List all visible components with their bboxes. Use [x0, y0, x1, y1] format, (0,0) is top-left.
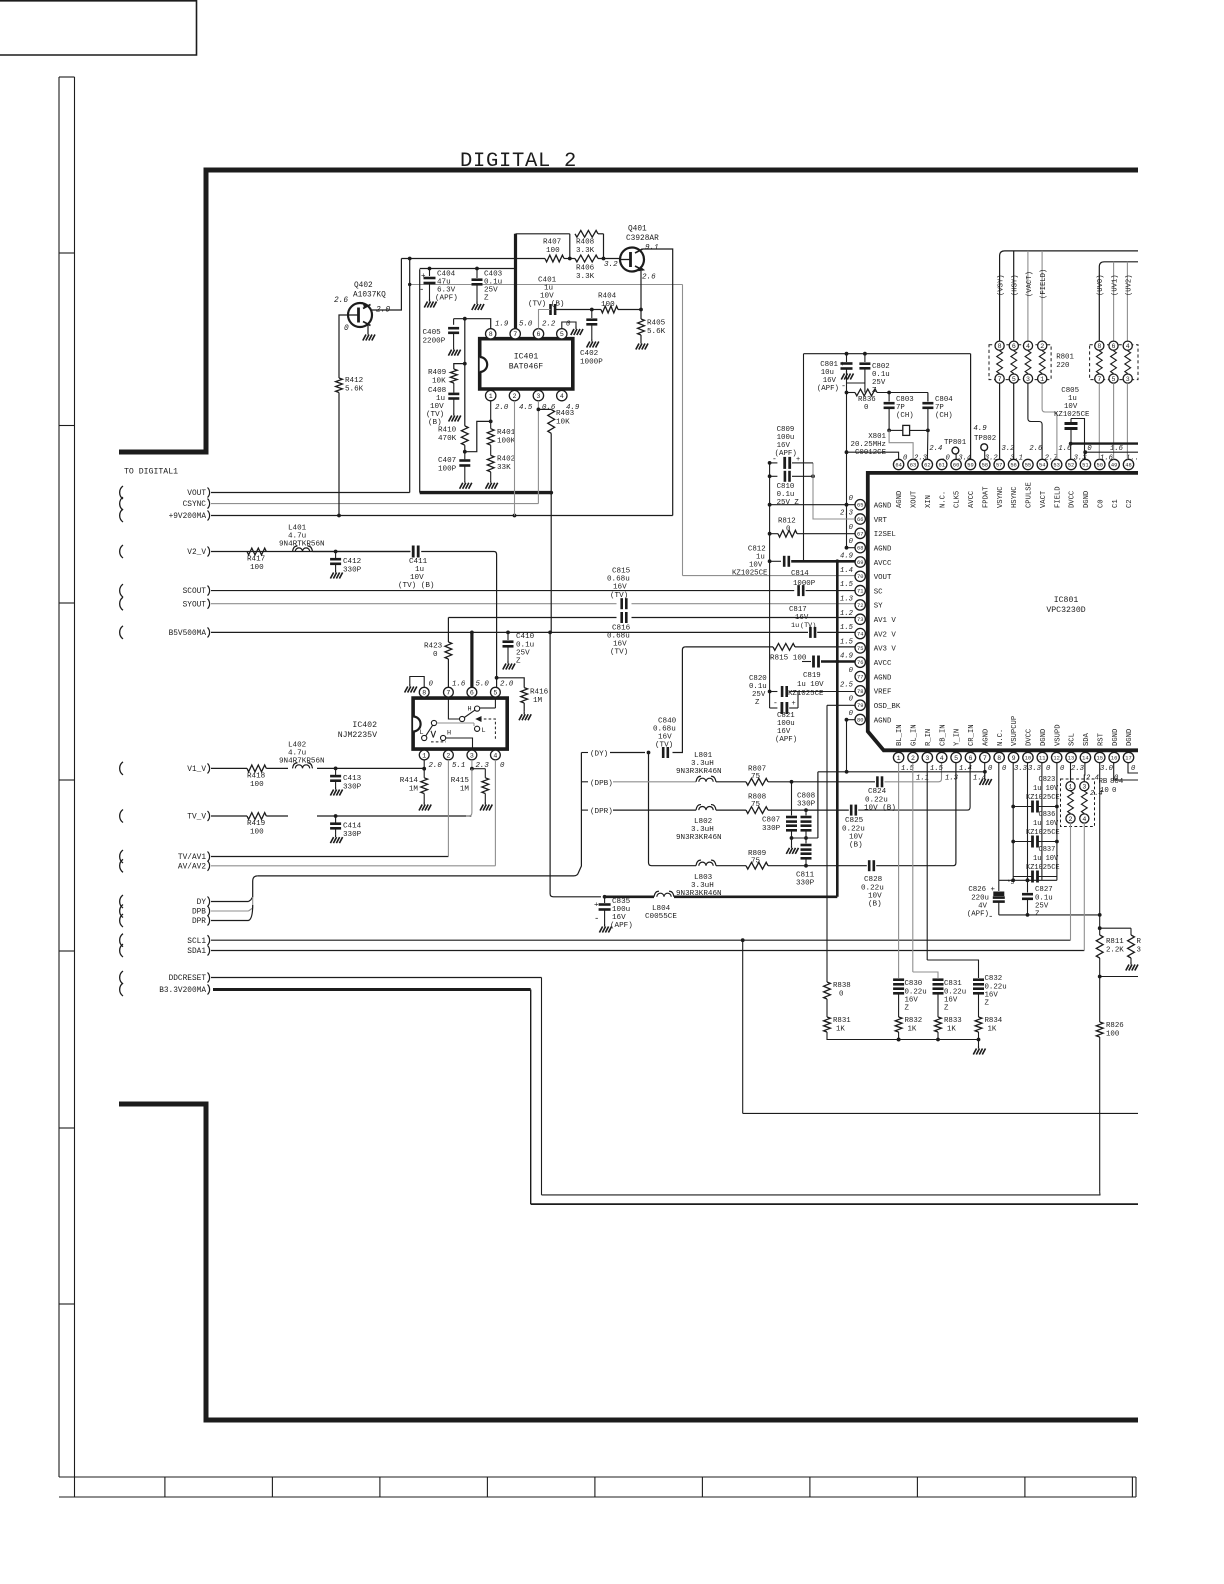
svg-text:6: 6	[968, 755, 972, 762]
svg-text:1u: 1u	[415, 566, 424, 574]
capacitor C824 (series)	[876, 776, 879, 787]
junction C404 top	[428, 267, 432, 271]
capacitor C403	[476, 269, 478, 279]
wire AGND drop from C801	[846, 383, 848, 548]
connector DDCRESET	[120, 971, 123, 984]
svg-text:(VSY): (VSY)	[998, 274, 1006, 296]
wire VRT drop	[813, 463, 855, 519]
ground R414	[423, 802, 425, 805]
junction R410 column mid	[463, 362, 467, 366]
wire TV_V	[211, 815, 247, 817]
wire pin5 junction riser	[496, 678, 498, 687]
wire DY bus riser jog	[574, 753, 582, 876]
ground R834	[978, 1046, 980, 1049]
svg-text:C809: C809	[777, 426, 795, 434]
IC801 pin 57 VSYNC	[994, 459, 1004, 469]
svg-text:3.1: 3.1	[1010, 455, 1023, 463]
row-index tick	[59, 950, 75, 952]
svg-text:C0012CE: C0012CE	[855, 449, 887, 457]
svg-text:0: 0	[1131, 765, 1136, 773]
wire B3.3V200MA loop bottom	[531, 1203, 1138, 1205]
resistor R412	[336, 378, 343, 393]
wire R811/R825 top link	[1100, 927, 1131, 929]
DIGITAL 2 block border - upper left stub	[119, 450, 209, 455]
svg-text:16V: 16V	[658, 734, 672, 742]
svg-text:C831: C831	[944, 980, 962, 988]
svg-text:C810: C810	[777, 483, 795, 491]
svg-text:8: 8	[998, 343, 1002, 350]
junction AVCC bus top	[835, 559, 839, 563]
svg-text:C801: C801	[820, 361, 838, 369]
svg-text:1.4: 1.4	[959, 765, 972, 773]
svg-text:-: -	[988, 912, 993, 922]
svg-text:3.3K: 3.3K	[576, 273, 595, 281]
svg-text:330P: 330P	[797, 801, 816, 809]
svg-text:Z: Z	[484, 295, 489, 303]
svg-text:R414: R414	[400, 777, 419, 785]
resistor network R801 dashed box	[989, 345, 1051, 380]
svg-text:C803: C803	[896, 396, 914, 404]
ground R402	[490, 480, 492, 483]
wire DDCRESET loop down	[541, 978, 543, 1195]
wire R809 to C828	[768, 865, 867, 867]
wire R408 top leg	[516, 233, 570, 235]
svg-text:100: 100	[601, 301, 615, 309]
svg-text:VREF: VREF	[874, 689, 892, 697]
resistor R419	[247, 813, 266, 820]
svg-text:1K: 1K	[908, 1026, 917, 1034]
capacitor C807 stack	[791, 782, 793, 816]
svg-text:RST: RST	[1097, 732, 1105, 746]
wire Q402 collector riser	[372, 259, 401, 311]
svg-text:4.7u: 4.7u	[288, 533, 306, 541]
junction R406/R408 right	[602, 257, 606, 261]
svg-text:3.2: 3.2	[985, 455, 999, 463]
svg-text:R417: R417	[247, 556, 265, 564]
svg-text:2.0: 2.0	[495, 404, 509, 412]
svg-text:R401: R401	[497, 429, 516, 437]
wire SCL1 riser	[742, 940, 744, 1113]
svg-text:R815 100: R815 100	[770, 655, 807, 663]
svg-text:1.9: 1.9	[495, 321, 509, 329]
svg-text:0: 0	[849, 524, 854, 532]
wire SCL pin13 to RB804-1	[1070, 763, 1072, 782]
svg-text:HSYNC: HSYNC	[1011, 486, 1019, 508]
svg-text:Q402: Q402	[354, 282, 373, 290]
svg-text:2: 2	[911, 755, 915, 762]
svg-text:64: 64	[895, 462, 901, 468]
wire pin3 down to CSYNC	[537, 401, 539, 504]
svg-text:16V: 16V	[777, 728, 791, 736]
svg-text:6: 6	[470, 690, 474, 697]
wire L804 to AVCC bus (thick)	[674, 895, 837, 898]
svg-text:R_IN: R_IN	[925, 729, 933, 746]
junction R407/R406	[568, 257, 572, 261]
connector SCL1	[120, 934, 123, 947]
svg-text:4.9: 4.9	[840, 552, 854, 560]
svg-text:V2_V: V2_V	[187, 549, 206, 557]
junction C836 right	[1055, 840, 1059, 844]
svg-text:6: 6	[1112, 343, 1116, 350]
svg-text:(VACT): (VACT)	[1026, 271, 1034, 297]
svg-text:70: 70	[857, 574, 863, 580]
IC401 pin 4	[557, 390, 567, 400]
svg-text:51: 51	[1082, 462, 1088, 468]
svg-text:10V: 10V	[1064, 403, 1078, 411]
connector B3.3V200MA	[120, 983, 123, 996]
junction R832 rail	[897, 1038, 901, 1042]
svg-text:0.1u: 0.1u	[1035, 895, 1053, 903]
IC801 pin 2 GL_IN	[908, 752, 918, 762]
svg-text:C836: C836	[1039, 811, 1056, 819]
RB804 pin 4	[1080, 814, 1089, 823]
svg-text:4: 4	[560, 393, 564, 400]
wire B5V500MA / AV2 line	[211, 631, 808, 633]
junction B5V/IC402 pin6	[470, 631, 474, 635]
svg-text:1.3: 1.3	[840, 595, 854, 603]
svg-text:3.0: 3.0	[1100, 765, 1114, 773]
ground C801	[846, 371, 848, 374]
svg-text:(TV) (B): (TV) (B)	[528, 301, 564, 309]
thick AVCC bus vertical	[836, 561, 839, 897]
svg-text:14: 14	[1082, 755, 1088, 761]
svg-text:SDA: SDA	[1083, 732, 1091, 746]
wire DPR to L802	[613, 809, 696, 811]
wire SY right of C815	[632, 603, 856, 605]
junction C827 top	[1026, 878, 1030, 882]
IC402 dashed control upper	[479, 719, 495, 741]
svg-text:2.6: 2.6	[642, 274, 656, 282]
wire CSYNC	[211, 503, 538, 505]
wire B5V riser to rail	[550, 493, 552, 633]
svg-text:3.2: 3.2	[604, 261, 618, 269]
ruler tick	[1131, 1477, 1133, 1497]
svg-text:Q401: Q401	[628, 226, 647, 234]
svg-text:AGND: AGND	[874, 717, 892, 725]
IC801 pin 72 SY	[855, 600, 865, 610]
capacitor C808 stack	[805, 810, 807, 815]
capacitor C407	[464, 452, 466, 460]
svg-text:76: 76	[857, 660, 863, 666]
svg-text:2.7: 2.7	[1045, 455, 1059, 463]
junction C827 bottom	[1026, 913, 1030, 917]
DIGITAL 2 block border - lower left edge	[204, 1104, 209, 1423]
svg-text:C825: C825	[845, 817, 864, 825]
svg-text:R811: R811	[1106, 938, 1124, 946]
svg-text:9N3R3KR46N: 9N3R3KR46N	[676, 768, 722, 776]
svg-text:804: 804	[1110, 778, 1124, 786]
row-index tick	[59, 425, 75, 427]
wire C401 right	[555, 309, 592, 311]
IC801 pin 77 AGND	[855, 671, 865, 681]
wire RB804-2 down to SCL1	[1070, 823, 1072, 940]
svg-text:C819: C819	[803, 672, 821, 680]
wire UV top bus	[1099, 262, 1138, 341]
svg-text:(HSY): (HSY)	[1012, 274, 1020, 296]
svg-text:C404: C404	[437, 271, 456, 279]
IC801 pin 7 AGND	[980, 752, 990, 762]
junction pin80	[845, 718, 849, 722]
svg-text:C1: C1	[1112, 499, 1120, 508]
wire AGND pin64 jog	[847, 452, 899, 459]
junction rail/pin9col	[1011, 878, 1015, 882]
wire AVCC thick pin69	[791, 560, 855, 563]
svg-text:1u 10V: 1u 10V	[1033, 820, 1059, 828]
IC401 thick bottom rail	[420, 491, 552, 494]
wire B5V AVCC rail descent	[550, 632, 601, 896]
svg-text:75: 75	[751, 773, 761, 781]
svg-text:GL_IN: GL_IN	[911, 724, 919, 746]
wire R416 to ground	[523, 703, 525, 712]
R801 element pin 8	[995, 341, 1004, 350]
svg-text:H: H	[468, 706, 472, 714]
junction emitter/R404/R405	[639, 308, 643, 312]
IC801 pin 11 DGND	[1037, 752, 1047, 762]
IC801 pin 49 C1	[1109, 459, 1119, 469]
svg-text:1u: 1u	[544, 285, 553, 293]
IC402 notch	[413, 717, 421, 732]
svg-text:C840: C840	[658, 718, 677, 726]
svg-text:R: R	[1137, 938, 1142, 946]
capacitor C408	[453, 383, 455, 393]
svg-text:330P: 330P	[762, 825, 781, 833]
svg-text:SDA1: SDA1	[187, 948, 206, 956]
svg-text:3: 3	[1082, 784, 1086, 791]
svg-text:0: 0	[500, 762, 505, 770]
wire UV1 to pin49	[1113, 383, 1115, 459]
wire L803 to R809	[716, 865, 746, 867]
svg-text:C804: C804	[935, 396, 953, 404]
IC402 pin 4	[491, 750, 501, 760]
wire R415 gnd	[484, 794, 486, 803]
IC801 pin 52 DVCC	[1066, 459, 1076, 469]
svg-text:7P: 7P	[935, 404, 944, 412]
capacitor C405	[453, 319, 455, 325]
wire R408 right riser	[603, 234, 605, 259]
svg-text:10V: 10V	[749, 562, 763, 570]
wire AVCC top bus	[847, 353, 971, 355]
wire SCOUT (SC)	[211, 590, 794, 592]
capacitor C810 (series)	[770, 475, 778, 477]
connector DPB	[120, 905, 123, 918]
IC801 pin 73 AV1 V	[855, 614, 865, 624]
junction pin3 node	[470, 767, 474, 771]
svg-text:100u: 100u	[612, 906, 630, 914]
junction R833 rail	[936, 1038, 940, 1042]
wire HSY to pin56	[1013, 383, 1015, 459]
IC801 pin 14 SDA	[1080, 752, 1090, 762]
svg-text:C808: C808	[797, 793, 816, 801]
svg-text:(TV): (TV)	[655, 742, 673, 750]
IC402 pin 3	[467, 750, 477, 760]
svg-text:10u: 10u	[821, 369, 834, 377]
svg-text:C408: C408	[428, 387, 447, 395]
svg-text:1u 10V: 1u 10V	[797, 681, 824, 689]
IC801 pin 1 BL_IN	[893, 752, 903, 762]
svg-text:0: 0	[849, 495, 854, 503]
wire DY to C840	[610, 752, 645, 754]
ground C835	[604, 924, 606, 927]
junction TV_V/C414	[334, 814, 338, 818]
svg-text:8: 8	[997, 755, 1001, 762]
svg-text:KZ1025CE: KZ1025CE	[732, 570, 768, 578]
resistor R410	[461, 426, 468, 445]
svg-text:2.3: 2.3	[1071, 765, 1085, 773]
svg-text:16V: 16V	[944, 997, 958, 1005]
svg-text:15: 15	[1097, 755, 1103, 761]
IC402 lower dashes	[431, 741, 446, 743]
capacitor C411 (series)	[412, 546, 415, 558]
row-index tick	[59, 76, 75, 78]
RB804 pin 3	[1080, 782, 1089, 791]
resistor R405	[638, 319, 645, 335]
wire DGND thin rail	[1085, 451, 1138, 453]
svg-text:IC402: IC402	[352, 721, 377, 730]
svg-text:C815: C815	[612, 568, 631, 576]
svg-text:4: 4	[1082, 816, 1086, 823]
wire C807/C808 bottom rail	[792, 837, 818, 839]
svg-text:1.6: 1.6	[452, 681, 466, 689]
capacitor C804	[927, 393, 929, 402]
svg-text:3: 3	[536, 393, 540, 400]
svg-text:330P: 330P	[343, 784, 362, 792]
svg-text:3.3K: 3.3K	[576, 247, 595, 255]
wire DY/DPB/DPR merge riser	[249, 876, 258, 902]
ruler tick	[1024, 1477, 1026, 1497]
svg-text:C2: C2	[1126, 499, 1134, 508]
svg-text:16V: 16V	[777, 442, 791, 450]
svg-text:H: H	[447, 730, 451, 738]
svg-text:NJM2235V: NJM2235V	[338, 731, 377, 740]
svg-text:R412: R412	[345, 377, 364, 385]
svg-text:TO DIGITAL1: TO DIGITAL1	[124, 468, 178, 477]
wire R404 right	[618, 309, 641, 311]
svg-text:C820: C820	[749, 675, 767, 683]
IC801 pin 65 AGND	[855, 500, 865, 510]
capacitor C832	[973, 978, 984, 981]
svg-text:20.25MHz: 20.25MHz	[851, 441, 886, 449]
svg-text:Z: Z	[755, 699, 760, 707]
transistor Q401 C3928AR	[620, 248, 644, 272]
svg-text:75: 75	[751, 801, 761, 809]
svg-text:2: 2	[1040, 343, 1044, 350]
svg-text:DVCC: DVCC	[1069, 490, 1077, 508]
junction C836 left	[1011, 840, 1015, 844]
svg-text:C0055CE: C0055CE	[645, 913, 677, 921]
svg-text:(APF): (APF)	[775, 736, 797, 744]
test point TP802	[981, 444, 988, 451]
R801 element pin 4	[1023, 341, 1032, 350]
wire V2_V	[211, 551, 411, 553]
resistor R832	[895, 1017, 902, 1032]
wire R423 to pin7	[447, 659, 449, 687]
wire R403 bottom	[550, 433, 552, 492]
svg-text:5: 5	[493, 690, 497, 697]
svg-text:TP801: TP801	[944, 439, 967, 447]
wire C816 to pin73	[632, 617, 856, 619]
IC401 pin 8	[486, 329, 496, 339]
svg-text:C807: C807	[762, 817, 780, 825]
wire R405 bottom	[640, 335, 642, 341]
row-index tick	[59, 1127, 75, 1129]
svg-text:2.5: 2.5	[840, 681, 854, 689]
wire C840 right riser to AV3	[673, 647, 686, 753]
wire TV_V c	[317, 815, 471, 817]
capacitor C835 (polarized)	[604, 897, 606, 903]
svg-text:0.1u: 0.1u	[872, 371, 890, 379]
svg-text:(FIELD): (FIELD)	[1040, 269, 1048, 299]
inductor L801	[696, 776, 716, 782]
svg-text:4.7u: 4.7u	[288, 750, 306, 758]
svg-text:10V: 10V	[868, 893, 882, 901]
IC801 pin 75 AV3 V	[855, 643, 865, 653]
svg-text:VSUPCUP: VSUPCUP	[1011, 716, 1019, 746]
svg-text:1K: 1K	[947, 1026, 956, 1034]
R801 element pin 2	[1038, 341, 1047, 350]
svg-text:C823: C823	[1039, 776, 1056, 784]
wire UV2 to pin48	[1126, 383, 1128, 459]
svg-text:2: 2	[1069, 816, 1073, 823]
wire L801 to R807	[716, 781, 746, 783]
svg-text:C821: C821	[777, 712, 795, 720]
IC401 pin 1	[486, 390, 496, 400]
capacitor C836 (series)	[1031, 836, 1034, 848]
IC801 pin 64 AGND	[893, 459, 903, 469]
svg-text:0: 0	[1060, 765, 1065, 773]
capacitor C802	[864, 354, 866, 362]
svg-text:XIN: XIN	[925, 495, 933, 508]
junction C812 left	[768, 559, 772, 563]
connector B5V500MA	[120, 626, 123, 639]
svg-text:C817: C817	[789, 606, 807, 614]
IC402 pin 7	[444, 687, 454, 697]
wire R807 to C824	[768, 781, 875, 783]
svg-text:(APF): (APF)	[817, 385, 839, 393]
IC801 pin 60 CLK5	[951, 459, 961, 469]
svg-text:VOUT: VOUT	[874, 574, 892, 582]
wire R415 top	[484, 769, 486, 778]
junction pin3/R403	[537, 408, 541, 412]
wire AGND pin80 drop	[846, 720, 848, 772]
svg-text:0: 0	[903, 455, 908, 463]
svg-text:3: 3	[470, 752, 474, 759]
resistor R404	[601, 306, 618, 313]
svg-text:17: 17	[1125, 755, 1131, 761]
wire DPB to L801	[613, 781, 696, 783]
ruler tick	[809, 1477, 811, 1497]
capacitor C840 (series)	[662, 747, 665, 758]
wire OSD_BK pin79 line	[827, 704, 855, 706]
wire V1_V b	[266, 767, 288, 769]
wire TV/AV1	[211, 856, 448, 858]
svg-text:C837: C837	[1039, 846, 1056, 854]
IC402 pin 2	[444, 750, 454, 760]
svg-text:VSYNC: VSYNC	[997, 486, 1005, 508]
svg-text:L402: L402	[288, 742, 307, 750]
svg-text:5.1: 5.1	[452, 762, 465, 770]
IC402 internal switch lower	[431, 720, 436, 725]
resistor R406	[575, 255, 598, 262]
svg-text:56: 56	[1010, 462, 1016, 468]
wire AGND return riser	[817, 772, 819, 838]
svg-text:67: 67	[857, 531, 863, 537]
ground C407	[464, 480, 466, 483]
svg-text:9N4RTKR56N: 9N4RTKR56N	[279, 541, 325, 549]
IC801 pin 61 N.C.	[937, 459, 947, 469]
capacitor C825 (series)	[850, 805, 853, 816]
wire DY bus	[258, 875, 574, 877]
resistor R416	[521, 688, 528, 703]
